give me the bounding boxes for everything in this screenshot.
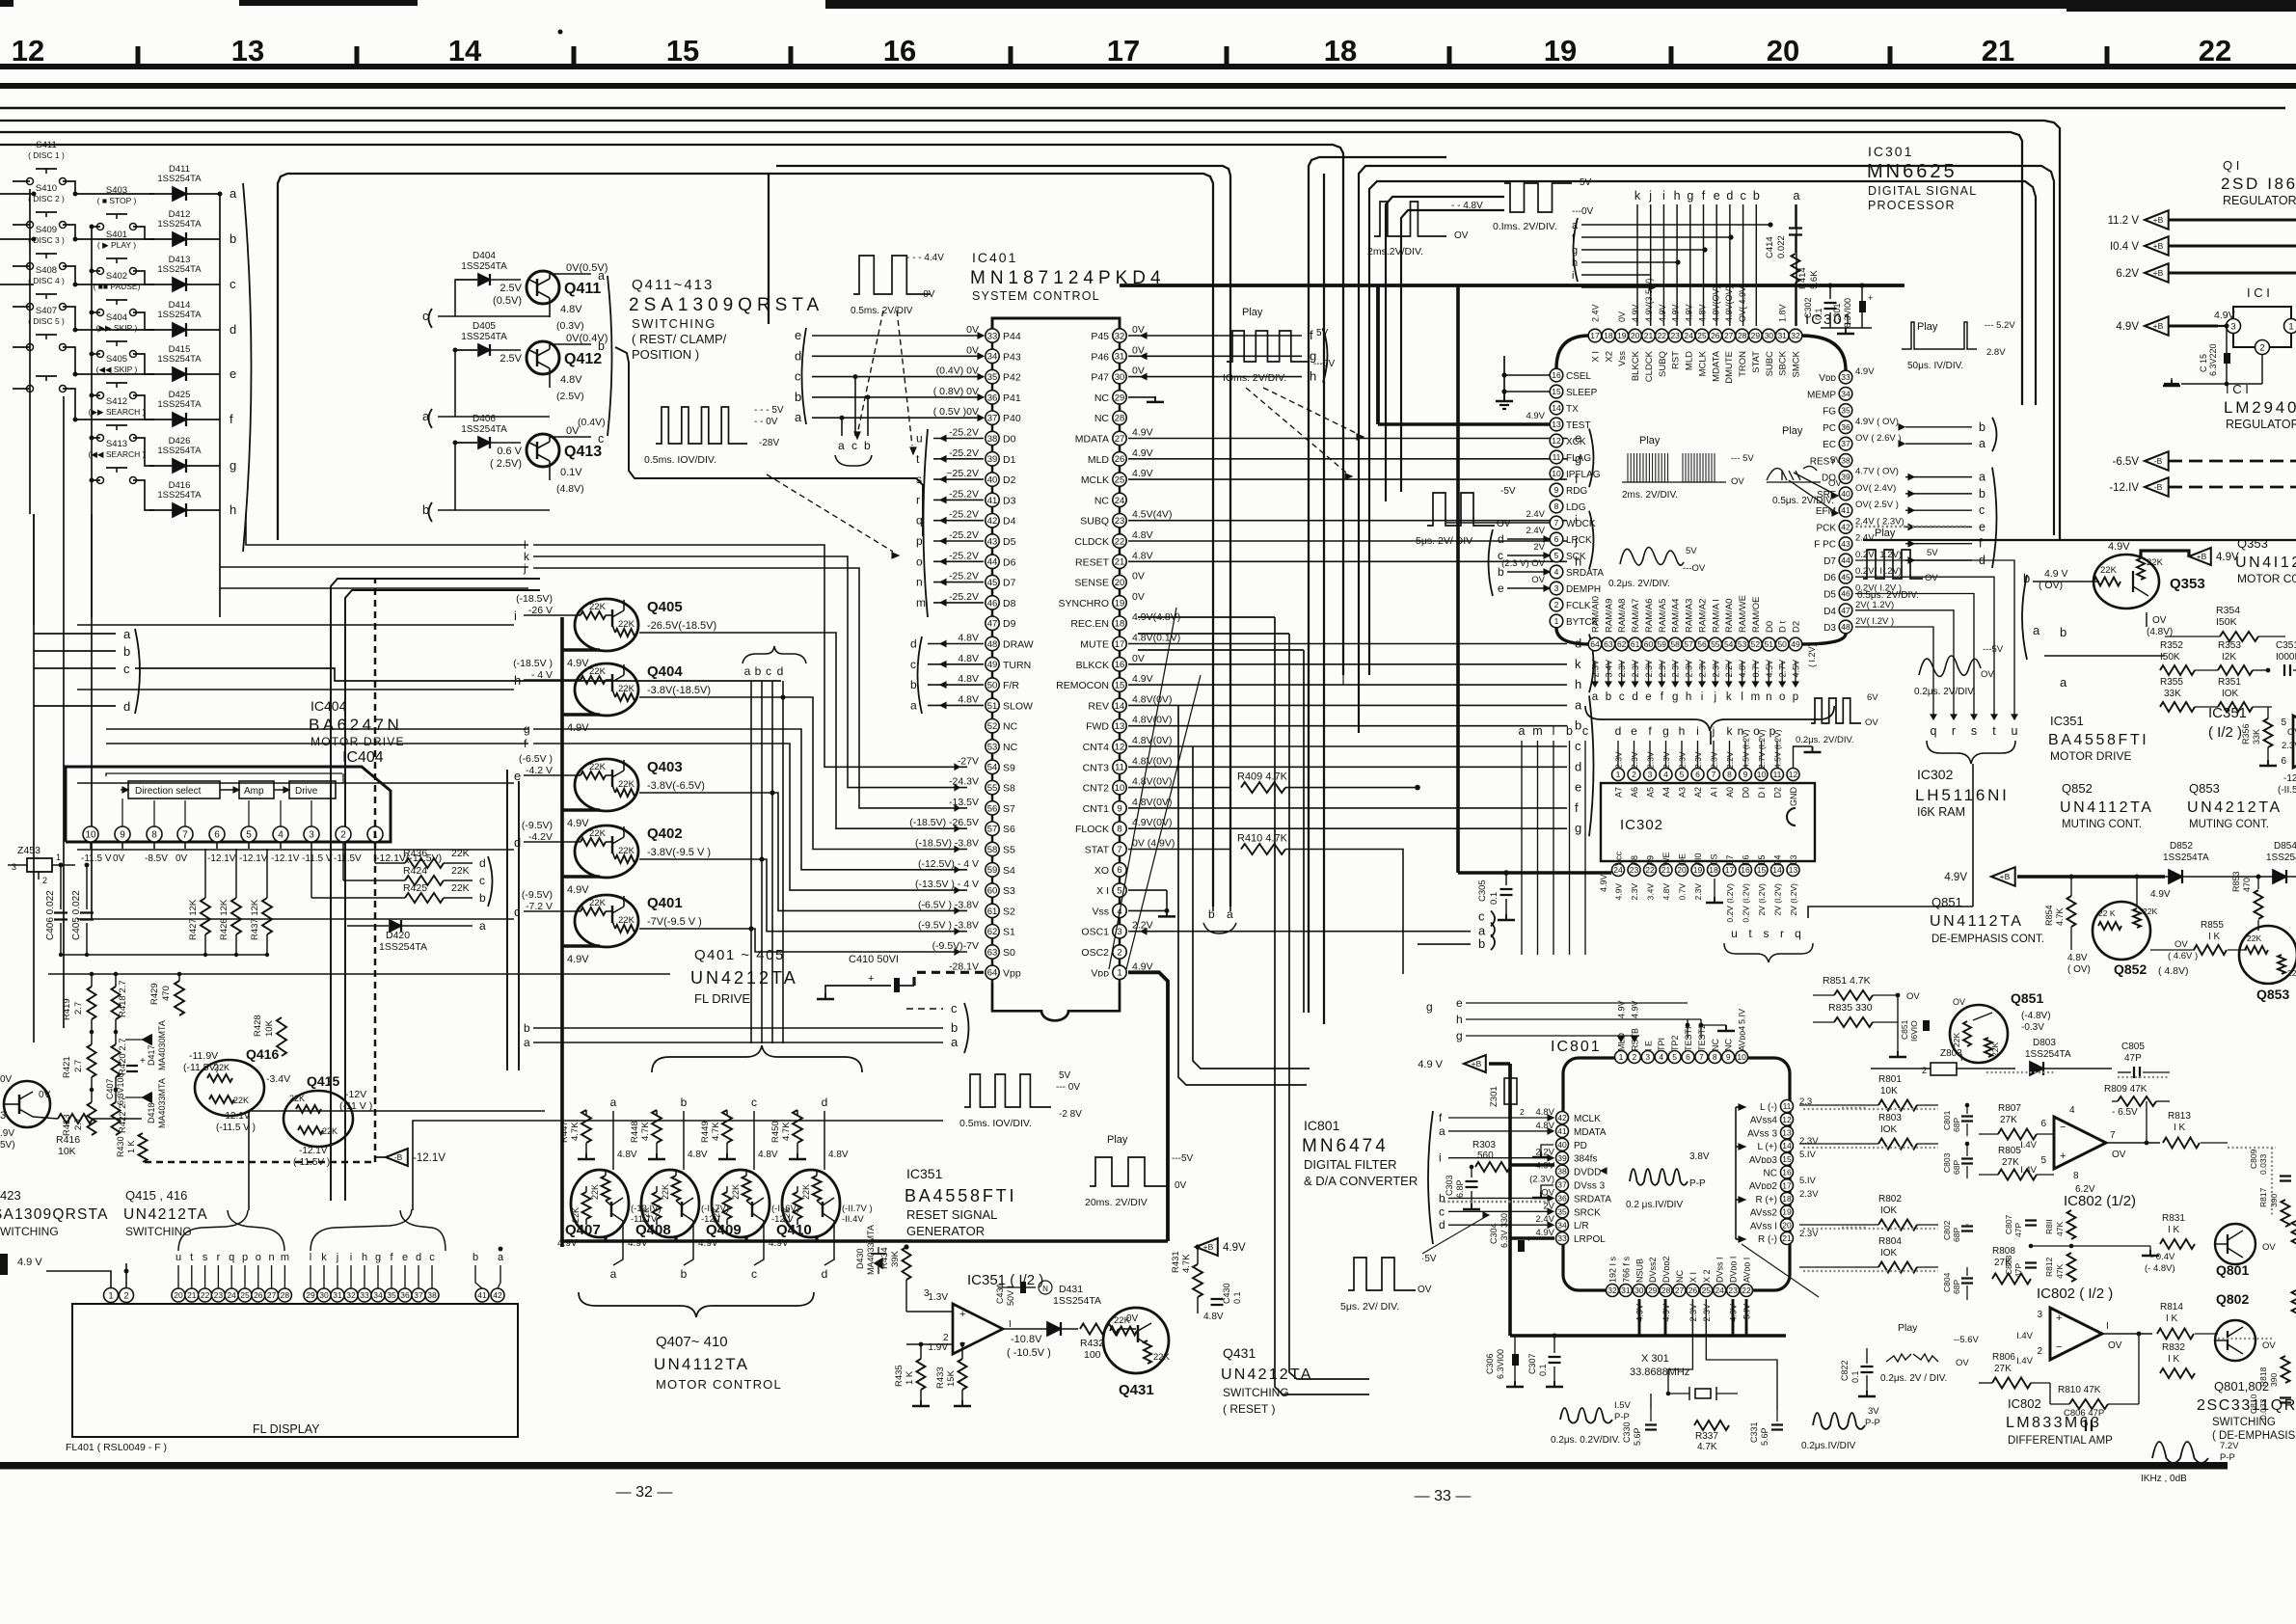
svg-text:31: 31 — [333, 1290, 342, 1300]
svg-text:4.9V: 4.9V — [2116, 321, 2139, 333]
svg-text:MOTOR C0: MOTOR C0 — [2237, 572, 2296, 585]
IC401 pin 59 S4 — [986, 863, 999, 877]
svg-text:45: 45 — [1841, 572, 1850, 582]
svg-text:22K: 22K — [451, 848, 470, 859]
svg-text:FCLK: FCLK — [1566, 601, 1591, 611]
svg-text:c: c — [1575, 739, 1581, 753]
IC301 pin 16 CSEL — [1550, 368, 1563, 382]
IC401 pin 22 CLDCK — [1113, 534, 1126, 548]
svg-text:X 2: X 2 — [1702, 1269, 1712, 1283]
svg-text:SMCK: SMCK — [1792, 350, 1802, 377]
svg-text:22K: 22K — [589, 828, 607, 839]
svg-text:21: 21 — [1782, 1233, 1792, 1243]
svg-text:Q404: Q404 — [647, 663, 683, 680]
frame line h4 — [0, 145, 1343, 675]
svg-text:OV: OV — [1906, 991, 1920, 1002]
IC301 pin 18 X2 — [1602, 329, 1615, 342]
svg-text:55: 55 — [987, 783, 998, 794]
svg-text:b: b — [951, 1020, 958, 1035]
svg-text:NC: NC — [1764, 1169, 1777, 1179]
svg-text:5: 5 — [1117, 886, 1121, 897]
svg-text:38: 38 — [1841, 455, 1850, 465]
svg-text:+B: +B — [2197, 552, 2207, 561]
svg-text:-5V: -5V — [1500, 486, 1516, 497]
svg-text:22K: 22K — [2100, 565, 2118, 576]
svg-text:5μs. 2V/ DIV: 5μs. 2V/ DIV — [1416, 535, 1472, 547]
wire IC801 pins top rail — [1621, 1028, 1634, 1050]
svg-text:D405: D405 — [473, 321, 496, 332]
svg-text:(◀◀ SKIP ): (◀◀ SKIP ) — [96, 365, 138, 374]
svg-text:Vss: Vss — [1092, 906, 1109, 917]
wire IC401 pin21 to h — [1128, 560, 1567, 562]
wire IC302 Vcc bold — [1456, 285, 1460, 873]
svg-text:C802: C802 — [1942, 1220, 1952, 1240]
svg-text:D4: D4 — [1003, 516, 1016, 528]
svg-text:-25.2V: -25.2V — [949, 427, 979, 439]
IC302 pin 22 A9 — [1644, 864, 1657, 877]
svg-text:2V( I.2V ): 2V( I.2V ) — [1855, 616, 1894, 627]
IC301 pin 19 Vss — [1615, 329, 1629, 342]
svg-text:X2: X2 — [1604, 351, 1614, 363]
svg-text:MN6625: MN6625 — [1867, 161, 1958, 182]
svg-text:h: h — [230, 502, 236, 517]
svg-text:53: 53 — [987, 742, 998, 752]
waveform efm2 — [1919, 656, 1981, 677]
svg-text:100: 100 — [1084, 1349, 1101, 1361]
svg-text:AVss2: AVss2 — [1750, 1208, 1778, 1219]
svg-text:14: 14 — [1782, 1141, 1792, 1150]
svg-text:Vᴅᴅ: Vᴅᴅ — [1819, 373, 1836, 384]
svg-text:d: d — [416, 1252, 421, 1263]
svg-text:R426 12K: R426 12K — [219, 899, 230, 940]
svg-text:R419: R419 — [62, 998, 72, 1020]
svg-text:MA4033MTA: MA4033MTA — [866, 1225, 876, 1275]
svg-text:AVss 3: AVss 3 — [1747, 1128, 1777, 1139]
svg-text:Q416: Q416 — [246, 1046, 279, 1062]
wire q853 gnd — [2267, 984, 2269, 995]
svg-text:OV: OV — [2262, 1340, 2276, 1351]
svg-text:I.4V: I.4V — [2020, 1140, 2038, 1150]
svg-text:P47: P47 — [1091, 372, 1109, 384]
svg-text:RAM/A6: RAM/A6 — [1644, 599, 1655, 633]
svg-text:-12.1V: -12.1V — [222, 1111, 251, 1122]
svg-text:Q412: Q412 — [564, 351, 602, 367]
svg-text:30: 30 — [1115, 372, 1125, 383]
svg-text:4.9V(OV): 4.9V(OV) — [1711, 285, 1720, 322]
svg-text:39: 39 — [987, 454, 998, 465]
svg-text:Q405: Q405 — [647, 599, 683, 615]
IC801 pin 41 MDATA — [1556, 1124, 1569, 1137]
svg-text:4.8V: 4.8V — [1698, 304, 1708, 322]
svg-text:C301: C301 — [1832, 303, 1842, 324]
IC801 pin 42 MCLK — [1556, 1112, 1569, 1124]
svg-text:20: 20 — [1631, 331, 1640, 340]
transistor Q401 — [575, 895, 638, 947]
svg-text:22K: 22K — [2287, 968, 2296, 978]
IC301 pin 8 LDG — [1550, 500, 1563, 513]
svg-text:27: 27 — [1115, 434, 1125, 445]
svg-text:q: q — [916, 514, 923, 528]
svg-text:(-13.5V ) - 4 V: (-13.5V ) - 4 V — [915, 879, 979, 890]
svg-text:560: 560 — [1477, 1150, 1494, 1161]
svg-text:Q853: Q853 — [2256, 987, 2289, 1002]
svg-text:33.8688MHz: 33.8688MHz — [1630, 1367, 1689, 1378]
svg-text:Play: Play — [1898, 1322, 1918, 1334]
svg-text:Q852: Q852 — [2062, 781, 2093, 796]
svg-text:c: c — [766, 664, 771, 678]
svg-text:4.9V: 4.9V — [1671, 304, 1681, 322]
svg-text:F PC: F PC — [1814, 540, 1836, 551]
svg-text:Q353: Q353 — [2237, 536, 2268, 551]
svg-text:C803: C803 — [1942, 1152, 1952, 1173]
svg-text:I E: I E — [1643, 1041, 1653, 1051]
svg-text:4.9V: 4.9V — [2150, 889, 2171, 900]
svg-text:( DISC 5 ): ( DISC 5 ) — [28, 316, 65, 326]
svg-text:(-18.5V ): (-18.5V ) — [513, 658, 553, 669]
svg-text:b: b — [795, 390, 801, 404]
frame line h2 — [0, 121, 2060, 540]
svg-text:S1: S1 — [1003, 927, 1015, 938]
svg-text:2.3V: 2.3V — [1799, 1136, 1819, 1147]
svg-text:b: b — [1498, 565, 1504, 579]
bplus 4.9V q431 — [1196, 1238, 1218, 1256]
svg-text:13: 13 — [1552, 420, 1561, 429]
svg-text:36: 36 — [1557, 1194, 1567, 1204]
svg-text:22K: 22K — [618, 846, 635, 856]
svg-text:a: a — [910, 698, 917, 712]
IC301 pin 54 RAM/A0 — [1722, 637, 1736, 651]
svg-text:SWITCHING: SWITCHING — [1223, 1386, 1289, 1399]
svg-text:LDG: LDG — [1566, 502, 1586, 513]
svg-text:D418: D418 — [147, 1102, 156, 1123]
svg-text:5V: 5V — [1059, 1070, 1071, 1081]
svg-text:22: 22 — [1658, 331, 1667, 340]
svg-text:60: 60 — [1644, 639, 1654, 649]
svg-text:D4: D4 — [1823, 607, 1836, 617]
svg-text:e: e — [1714, 189, 1720, 203]
svg-text:D854: D854 — [2274, 841, 2296, 852]
IC401 pin 25 MCLK — [1113, 473, 1126, 486]
svg-text:g: g — [1672, 691, 1678, 703]
svg-text:AVss I: AVss I — [1750, 1221, 1777, 1232]
svg-text:D5: D5 — [1757, 854, 1767, 866]
svg-text:MOTOR CONTROL: MOTOR CONTROL — [656, 1377, 782, 1392]
svg-text:--- 0V: --- 0V — [1056, 1082, 1080, 1093]
IC301 pin 43 F PC — [1839, 537, 1852, 551]
svg-text:( DISC 1 ): ( DISC 1 ) — [28, 150, 65, 160]
svg-text:t: t — [190, 1252, 193, 1263]
wire IC401 pin8 to g — [1128, 827, 1567, 829]
svg-text:1: 1 — [1619, 1052, 1624, 1062]
svg-text:22K: 22K — [451, 882, 470, 894]
svg-text:24: 24 — [1115, 496, 1125, 506]
svg-text:P44: P44 — [1003, 331, 1021, 342]
IC801 pin 35 SRCK — [1556, 1205, 1569, 1218]
svg-text:Vcc: Vcc — [1614, 851, 1624, 866]
wire Q40x emitter bus — [562, 1239, 1168, 1243]
svg-text:RAM/A4: RAM/A4 — [1671, 599, 1682, 633]
svg-text:C805: C805 — [2121, 1042, 2145, 1052]
svg-text:n: n — [269, 1252, 275, 1263]
svg-text:50V I: 50V I — [1006, 1286, 1015, 1306]
svg-text:Amp: Amp — [244, 786, 264, 797]
svg-text:OV: OV — [1731, 476, 1744, 487]
svg-text:D5: D5 — [1823, 590, 1836, 601]
svg-text:57: 57 — [987, 825, 998, 835]
bplus 6.2V — [2145, 263, 2169, 283]
svg-text:10: 10 — [1757, 770, 1767, 779]
svg-text:50: 50 — [987, 681, 998, 691]
svg-text:FLOCK: FLOCK — [1075, 824, 1109, 835]
svg-text:(-18.5V) -3.8V: (-18.5V) -3.8V — [915, 838, 979, 850]
svg-text:PROCESSOR: PROCESSOR — [1868, 199, 1956, 212]
svg-text:4.9V: 4.9V — [1223, 1242, 1246, 1254]
bminus -12.1V triangle — [386, 1149, 408, 1166]
wire analog hatch L — [1803, 1108, 1938, 1110]
svg-text:25: 25 — [240, 1290, 250, 1300]
svg-text:2V: 2V — [1533, 542, 1545, 553]
svg-text:BA4558FTI: BA4558FTI — [905, 1186, 1016, 1205]
svg-text:LM833M63: LM833M63 — [2006, 1415, 2101, 1431]
svg-text:4.9V(0V): 4.9V(0V) — [1132, 817, 1172, 828]
svg-text:h: h — [1456, 1013, 1463, 1026]
svg-text:R356: R356 — [2241, 723, 2251, 744]
svg-text:18: 18 — [1782, 1194, 1792, 1204]
IC302 pin 20 OE — [1676, 864, 1688, 877]
svg-text:+B: +B — [2153, 241, 2164, 251]
svg-text:D431: D431 — [1059, 1284, 1083, 1295]
svg-text:j: j — [523, 561, 527, 575]
svg-text:RAM/OE: RAM/OE — [1751, 597, 1762, 633]
svg-text:R354: R354 — [2216, 605, 2240, 616]
svg-text:AI0: AI0 — [1693, 853, 1703, 866]
svg-text:BA6247N: BA6247N — [309, 716, 402, 734]
svg-text:p: p — [242, 1252, 248, 1263]
svg-text:·5V: ·5V — [1421, 1254, 1437, 1264]
svg-text:3: 3 — [1554, 583, 1559, 593]
svg-text:R433: R433 — [935, 1367, 946, 1389]
svg-text:1: 1 — [1616, 770, 1621, 779]
svg-text:22K: 22K — [589, 898, 607, 908]
svg-text:(-9.5V): (-9.5V) — [522, 820, 553, 831]
wire page33 frame a — [1309, 157, 1446, 1013]
svg-text:C405 0.022: C405 0.022 — [71, 890, 82, 940]
svg-text:TESTI: TESTI — [1684, 1026, 1693, 1051]
svg-text:( 0.8V) 0V: ( 0.8V) 0V — [933, 386, 979, 397]
IC302 pin 12 GND — [1787, 769, 1799, 781]
IC401 pin 20 SENSE — [1113, 575, 1126, 588]
IC801 pin 32 192 I s — [1607, 1285, 1619, 1297]
svg-text:6: 6 — [1117, 865, 1121, 876]
IC301 pin 37 EC — [1839, 437, 1852, 450]
svg-text:IC351: IC351 — [906, 1166, 943, 1181]
svg-text:I C I: I C I — [2226, 382, 2249, 396]
svg-text:n: n — [916, 576, 923, 589]
IC401 body — [992, 318, 1120, 330]
svg-text:4.8V: 4.8V — [1535, 1121, 1554, 1131]
IC801 pin 6 TESTI — [1682, 1051, 1694, 1064]
wire loop page32 top — [278, 174, 1213, 907]
svg-text:DE-EMPHASIS CONT.: DE-EMPHASIS CONT. — [1931, 934, 2044, 945]
svg-text:g: g — [1662, 724, 1669, 738]
IC301 pin 26 MDATA — [1709, 329, 1722, 342]
svg-text:5V: 5V — [1316, 328, 1329, 338]
svg-text:0.5ms. IOV/DIV.: 0.5ms. IOV/DIV. — [644, 454, 716, 466]
svg-text:c: c — [851, 439, 857, 452]
svg-text:-12.1V: -12.1V — [207, 853, 236, 864]
svg-text:2.4V ( 2.3V): 2.4V ( 2.3V) — [1855, 516, 1904, 527]
svg-text:+: + — [1868, 293, 1873, 303]
svg-text:o: o — [256, 1252, 261, 1263]
svg-text:r: r — [1952, 724, 1956, 738]
wire IC401 pin23 to i — [1128, 520, 1567, 522]
svg-text:S0: S0 — [1003, 947, 1015, 959]
wire IC302 bus lower — [1538, 954, 2025, 956]
svg-text:29: 29 — [1115, 392, 1125, 403]
svg-text:18: 18 — [1324, 34, 1357, 68]
svg-text:R808: R808 — [1992, 1246, 2015, 1257]
svg-text:2: 2 — [42, 876, 47, 885]
svg-text:AVᴅᴅ2: AVᴅᴅ2 — [1749, 1181, 1778, 1192]
svg-text:3: 3 — [2230, 321, 2235, 332]
svg-text:37: 37 — [1557, 1180, 1567, 1190]
IC301 pin 42 PCK — [1839, 521, 1852, 534]
svg-text:i: i — [514, 609, 517, 623]
svg-text:9: 9 — [1743, 770, 1748, 779]
svg-text:DRAW: DRAW — [1003, 639, 1034, 651]
svg-text:22K: 22K — [618, 684, 635, 694]
wire mid bus v4 — [1289, 634, 1369, 1379]
wire IC301 bottom bus down — [1710, 731, 1712, 744]
wire IC401 pin16 to k — [1128, 663, 1567, 665]
svg-text:- 4 V: - 4 V — [531, 669, 553, 681]
IC401 pin 2 OSC2 — [1113, 945, 1126, 959]
svg-text:4: 4 — [2069, 1105, 2075, 1116]
svg-text:6: 6 — [2281, 756, 2286, 767]
svg-text:1: 1 — [1554, 616, 1559, 626]
svg-text:22K: 22K — [618, 619, 635, 630]
svg-text:F/R: F/R — [1003, 680, 1019, 691]
svg-text:4.8V: 4.8V — [560, 374, 582, 386]
svg-text:b: b — [1753, 189, 1760, 203]
transistor Q405 — [575, 599, 638, 651]
wire opamp2 out — [2102, 1333, 2152, 1335]
svg-text:3: 3 — [309, 830, 314, 841]
svg-text:A0: A0 — [1725, 787, 1735, 798]
svg-text:-6.5V: -6.5V — [2113, 456, 2140, 468]
IC301 pin 51 D0 — [1763, 637, 1776, 651]
IC401 pin 37 P40 — [986, 411, 999, 424]
svg-text:Play: Play — [1875, 528, 1896, 539]
svg-text:22K: 22K — [618, 915, 635, 926]
svg-text:AVss4: AVss4 — [1750, 1116, 1778, 1126]
svg-text:0V (4.9V): 0V (4.9V) — [1132, 838, 1175, 850]
svg-text:R430: R430 — [116, 1136, 125, 1157]
svg-text:S411: S411 — [36, 140, 56, 150]
svg-text:34: 34 — [987, 352, 998, 363]
svg-text:d: d — [1575, 759, 1581, 773]
svg-text:2: 2 — [1117, 947, 1121, 958]
svg-text:MA4030MTA: MA4030MTA — [157, 1020, 167, 1070]
IC401 pin 5 X I — [1113, 883, 1126, 897]
svg-text:(▶▶ SKIP ): (▶▶ SKIP ) — [96, 323, 138, 333]
waveform xtal sine2 — [1813, 1413, 1865, 1429]
svg-text:I.5V: I.5V — [1614, 1400, 1632, 1411]
svg-text:FG: FG — [1823, 407, 1836, 418]
svg-text:4.8V: 4.8V — [958, 693, 979, 705]
svg-text:-13.5V: -13.5V — [949, 797, 979, 808]
pointer waveform to P40 — [897, 311, 912, 446]
svg-text:53: 53 — [1738, 639, 1747, 649]
IC301 pin 2 FCLK — [1550, 598, 1563, 611]
transistor Q410 — [782, 1170, 840, 1237]
svg-text:FL401 ( RSL0049 - F ): FL401 ( RSL0049 - F ) — [66, 1442, 167, 1453]
svg-text:S405: S405 — [106, 354, 127, 365]
svg-text:MDATA: MDATA — [1711, 350, 1721, 382]
IC301 body outline — [1556, 336, 1589, 368]
waveform xtal sine1 — [1560, 1408, 1612, 1423]
IC401 pin 47 D9 — [986, 616, 999, 630]
IC401 pin 43 D5 — [986, 534, 999, 548]
wire dsp loop2 — [1386, 197, 1504, 501]
svg-text:20ms. 2V/DIV: 20ms. 2V/DIV — [1085, 1197, 1148, 1208]
svg-text:8: 8 — [1727, 770, 1732, 779]
svg-text:Q852: Q852 — [2114, 961, 2147, 977]
FL bracket left — [178, 1236, 295, 1246]
svg-text:0V: 0V — [1132, 571, 1145, 582]
svg-text:a: a — [123, 627, 131, 641]
IC302 pin 23 A8 — [1628, 864, 1640, 877]
svg-text:+B: +B — [2153, 321, 2164, 331]
svg-text:37: 37 — [1841, 439, 1850, 448]
IC302 pin 8 A0 — [1723, 769, 1736, 781]
svg-text:2SC3311QRSTA: 2SC3311QRSTA — [2197, 1397, 2296, 1414]
svg-text:( 2.5V): ( 2.5V) — [490, 458, 522, 470]
svg-text:I6VIO: I6VIO — [1909, 1020, 1919, 1042]
svg-text:1.8V: 1.8V — [1778, 304, 1788, 322]
svg-text:NSUB: NSUB — [1634, 1259, 1644, 1283]
svg-text:S408: S408 — [36, 265, 57, 276]
svg-text:62: 62 — [987, 927, 998, 937]
svg-text:17: 17 — [1782, 1180, 1792, 1190]
svg-text:- - 0V: - - 0V — [911, 289, 935, 300]
svg-text:-12.1V: -12.1V — [239, 853, 268, 864]
IC302 pin 19 AI0 — [1691, 864, 1704, 877]
svg-text:0V: 0V — [113, 853, 125, 864]
svg-text:S6: S6 — [1003, 824, 1015, 835]
IC401 pin 49 TURN — [986, 658, 999, 671]
svg-text:(-9.5V): (-9.5V) — [522, 889, 553, 901]
IC401 pin 9 CNT1 — [1113, 801, 1126, 815]
svg-text:TP2: TP2 — [1670, 1035, 1680, 1051]
svg-text:11.2 V: 11.2 V — [2108, 215, 2140, 227]
svg-text:C406 0.022: C406 0.022 — [45, 890, 56, 940]
svg-text:---5V: ---5V — [1172, 1153, 1194, 1164]
svg-text:4.9 V: 4.9 V — [2044, 568, 2068, 580]
svg-text:(-6.5V ) -3.8V: (-6.5V ) -3.8V — [918, 899, 979, 910]
svg-text:RESET: RESET — [1075, 556, 1110, 568]
wire dvss3 gnd — [1541, 1185, 1553, 1192]
svg-text:54: 54 — [987, 763, 998, 773]
svg-text:21: 21 — [1982, 34, 2014, 68]
wire IC301 bottom g — [1674, 662, 1676, 683]
svg-text:8: 8 — [151, 830, 157, 841]
svg-text:REGULATOR: REGULATOR — [2226, 418, 2296, 431]
wire IC301 bottom j — [1715, 662, 1716, 683]
wire IC301 bottom b — [1607, 662, 1609, 683]
svg-text:34: 34 — [373, 1290, 383, 1300]
svg-text:36: 36 — [1841, 422, 1850, 432]
